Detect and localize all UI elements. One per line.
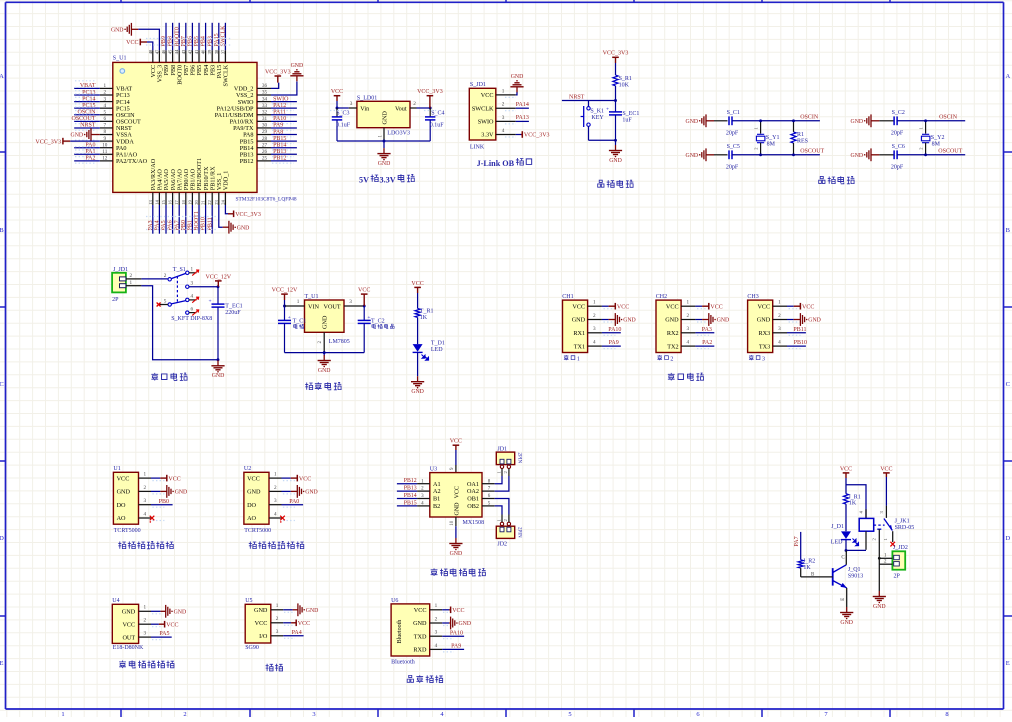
wire VCC to Vin xyxy=(336,101,338,108)
wire VSS_1 to GND xyxy=(219,205,223,227)
svg-text:VCC_12V: VCC_12V xyxy=(272,288,298,294)
connector J_JD1 2P xyxy=(112,267,128,303)
CH1 pin 2 GND xyxy=(572,313,616,324)
svg-text:2: 2 xyxy=(144,485,147,491)
CH3 pin 3 RX3 xyxy=(758,326,800,337)
power port VCC_3V3 (VDD_2) xyxy=(265,69,291,82)
svg-text:42: 42 xyxy=(187,49,192,54)
ground GND (U6) xyxy=(449,617,471,630)
sub label serial 1 xyxy=(564,355,580,362)
wire OSCOUT (left xtal) xyxy=(732,154,820,156)
MCU top pin 47 VSS_3 xyxy=(154,49,163,82)
svg-text:1: 1 xyxy=(191,267,194,273)
svg-text:J_D1: J_D1 xyxy=(831,524,844,530)
svg-text:VCC: VCC xyxy=(454,486,460,498)
svg-text:S_JD1: S_JD1 xyxy=(470,82,486,88)
U1 wire VCC xyxy=(151,477,160,479)
MCU right pin 34 SWIO xyxy=(238,96,297,106)
U6 pin 2 GND xyxy=(413,616,454,627)
U4 pin 1 GND xyxy=(122,605,163,616)
svg-text:2: 2 xyxy=(276,616,279,622)
MCU right pin 30 PA9/TX xyxy=(233,123,297,133)
U3 pin 7 OA2 xyxy=(467,487,495,496)
svg-text:PA0: PA0 xyxy=(85,143,95,149)
svg-text:GND: GND xyxy=(572,317,586,324)
MCU right pin 36 VDD_2 xyxy=(234,83,271,93)
JD1 pin 3 SWIO xyxy=(478,115,516,126)
wire VCC top xyxy=(147,42,153,50)
MCU top pin 39 PB3 xyxy=(207,23,216,76)
svg-text:20: 20 xyxy=(194,200,199,205)
wire OSCIN (left xtal) xyxy=(732,120,820,122)
resistor J_R2 1K xyxy=(798,559,815,577)
svg-text:B1: B1 xyxy=(433,496,440,503)
svg-text:1: 1 xyxy=(435,603,438,609)
svg-text:GND: GND xyxy=(212,373,225,379)
svg-text:SWIO: SWIO xyxy=(273,96,289,102)
ground GND (JD1) xyxy=(510,74,523,92)
svg-text:PB15: PB15 xyxy=(404,500,417,506)
svg-text:21: 21 xyxy=(201,200,206,205)
svg-text:Bluetooth: Bluetooth xyxy=(397,620,403,644)
title label: IR tracking module 2 xyxy=(249,541,304,548)
power port VCC_12V (buck in) xyxy=(272,288,298,301)
svg-text:PB0: PB0 xyxy=(159,499,169,505)
wire OA1 to JD1.1 xyxy=(495,476,502,484)
svg-text:VCC: VCC xyxy=(247,475,260,482)
svg-text:PB10: PB10 xyxy=(794,340,807,346)
U2 wire GND xyxy=(282,490,291,492)
wire VDD_1 to VCC_3V3 xyxy=(225,205,228,214)
MCU top pin 43 PB7 xyxy=(181,23,190,76)
LD01 pin 3 xyxy=(349,107,357,109)
svg-text:BOOT0: BOOT0 xyxy=(174,27,180,46)
CH3 wire PB10 xyxy=(787,345,806,347)
svg-text:GND: GND xyxy=(459,621,472,627)
title label: reset circuit xyxy=(598,180,634,187)
svg-text:TCRT5000: TCRT5000 xyxy=(244,528,271,534)
svg-text:BOOT1: BOOT1 xyxy=(194,211,200,230)
selection dot rows bottom xyxy=(146,216,217,218)
svg-text:GND: GND xyxy=(175,490,188,496)
svg-text:Vin: Vin xyxy=(360,106,369,113)
IC U2 TCRT5000 body xyxy=(244,466,271,534)
svg-text:20pF: 20pF xyxy=(726,131,739,137)
svg-text:3: 3 xyxy=(191,281,194,287)
svg-text:GND: GND xyxy=(623,318,636,324)
svg-text:2PIN: 2PIN xyxy=(517,453,522,464)
svg-text:VOUT: VOUT xyxy=(324,304,341,311)
ground GND (relay) xyxy=(873,591,886,610)
svg-text:J-Link OB: J-Link OB xyxy=(477,159,515,168)
svg-text:PA2: PA2 xyxy=(85,156,95,162)
svg-text:S_K1: S_K1 xyxy=(590,108,604,114)
svg-text:S_KFT DIP-8X8: S_KFT DIP-8X8 xyxy=(171,316,212,322)
ground GND (5V reg) xyxy=(377,148,390,167)
svg-text:S_C1: S_C1 xyxy=(727,110,740,116)
svg-text:DO: DO xyxy=(247,502,256,509)
CH2 wire PA3 xyxy=(695,332,714,334)
MCU left pin 8 VSSA xyxy=(100,129,133,139)
svg-text:VCC: VCC xyxy=(411,281,423,287)
svg-text:LED: LED xyxy=(431,347,443,353)
svg-text:LDO3V3: LDO3V3 xyxy=(387,130,410,136)
svg-text:47: 47 xyxy=(154,49,159,54)
svg-text:VCC: VCC xyxy=(880,466,892,472)
MCU right pin 35 VSS_2 xyxy=(236,90,271,100)
CH3 wire VCC xyxy=(787,305,794,307)
IC U4 E18-D80NK body xyxy=(112,598,144,651)
svg-text:GND: GND xyxy=(381,111,388,125)
ground GND (U2) xyxy=(291,485,318,498)
MCU left pin 2 PC13 xyxy=(74,87,130,99)
svg-text:U2: U2 xyxy=(244,466,251,472)
svg-text:VCC: VCC xyxy=(122,621,135,628)
svg-text:GND: GND xyxy=(71,133,84,139)
svg-text:Bluetooth: Bluetooth xyxy=(391,660,415,666)
svg-text:GND: GND xyxy=(111,27,124,33)
svg-text:VCC: VCC xyxy=(802,304,814,310)
MCU right pin 27 PB14 xyxy=(240,142,297,152)
svg-text:VCC: VCC xyxy=(126,40,138,46)
svg-text:T_EC1: T_EC1 xyxy=(225,303,242,309)
JD2 pin1 wire xyxy=(879,557,892,559)
svg-text:1: 1 xyxy=(274,472,277,478)
svg-text:Vout: Vout xyxy=(395,106,407,113)
title label: serial port circuit xyxy=(668,373,704,381)
U3 pin 3 B1 xyxy=(397,493,440,503)
relay switch contact xyxy=(874,506,893,559)
U3 pin 9 xyxy=(455,465,457,473)
ground GND (VSSA) xyxy=(71,128,100,141)
svg-text:PB13: PB13 xyxy=(273,149,286,155)
power port VCC (U1) xyxy=(160,475,180,483)
U2 pin 1 VCC xyxy=(247,472,295,483)
svg-text:10: 10 xyxy=(102,142,108,148)
svg-text:VCC: VCC xyxy=(168,476,180,482)
U3 pin 4 B2 xyxy=(397,500,440,510)
svg-text:CH2: CH2 xyxy=(656,294,667,300)
svg-text:44: 44 xyxy=(174,49,179,54)
svg-text:14: 14 xyxy=(154,200,159,205)
capacitor T_C1 (electrolytic) xyxy=(278,306,306,353)
svg-text:1: 1 xyxy=(144,472,147,478)
regulator U LD01 body LD03V3 xyxy=(357,96,410,137)
svg-text:37: 37 xyxy=(220,49,225,54)
MCU top pin 38 PA15 xyxy=(214,23,223,79)
svg-text:S9013: S9013 xyxy=(848,573,863,579)
ground GND (CH2) xyxy=(702,313,729,326)
ground GND (VSS_2) xyxy=(290,63,303,81)
svg-text:PA5: PA5 xyxy=(159,631,169,637)
ground GND (LED) xyxy=(411,376,424,395)
svg-text:2: 2 xyxy=(183,711,186,717)
svg-text:PA11: PA11 xyxy=(273,110,286,116)
capacitor S_C1 20pF xyxy=(714,110,740,136)
U2 pin 3 DO xyxy=(247,498,295,509)
svg-text:NRST: NRST xyxy=(80,123,96,129)
svg-text:VCC: VCC xyxy=(450,439,462,445)
svg-text:2: 2 xyxy=(593,313,596,319)
svg-text:1: 1 xyxy=(593,300,596,306)
resistor T_R1 1K xyxy=(415,309,433,322)
IC U3 MX1508 body xyxy=(430,467,484,526)
power port VCC (U5) xyxy=(291,620,310,628)
svg-text:OUT: OUT xyxy=(122,634,135,641)
MCU left pin 9 VDDA xyxy=(100,136,135,146)
svg-text:33: 33 xyxy=(262,103,268,109)
svg-text:B2: B2 xyxy=(433,503,440,510)
U2 pin 4 AO xyxy=(247,511,295,522)
svg-text:U4: U4 xyxy=(112,598,119,604)
MCU bottom pin 22 PB11/RX xyxy=(207,166,216,234)
transistor J_Q1 S9013 xyxy=(811,556,863,601)
svg-text:VCC: VCC xyxy=(331,89,343,95)
svg-text:PA9: PA9 xyxy=(273,123,283,129)
power port VCC_3V3 (JD1) xyxy=(521,131,550,139)
wire R1 to LED xyxy=(845,504,847,531)
CH1 wire PA9 xyxy=(602,345,621,347)
svg-text:S_C2: S_C2 xyxy=(892,110,905,116)
svg-text:4: 4 xyxy=(191,294,194,300)
power port VCC (LED) xyxy=(411,281,423,293)
wire 3.3V pin xyxy=(516,134,521,136)
MCU bottom pin 13 PA3/RX/AO xyxy=(148,158,157,233)
ground GND (U4) xyxy=(160,605,186,618)
svg-text:VCC: VCC xyxy=(299,476,311,482)
U3 pin 1 A1 xyxy=(397,478,441,488)
title label: bluetooth module xyxy=(407,675,442,683)
CH1 wire GND xyxy=(602,319,609,321)
svg-text:VCC: VCC xyxy=(757,303,770,310)
svg-text:VCC: VCC xyxy=(572,303,585,310)
U2 pin 2 GND xyxy=(247,485,295,496)
svg-text:29: 29 xyxy=(262,129,268,135)
resistor J_R1 1K xyxy=(843,494,860,507)
svg-text:VCC_3V3: VCC_3V3 xyxy=(417,89,443,95)
svg-text:32: 32 xyxy=(262,109,268,115)
svg-text:JD2: JD2 xyxy=(497,541,507,547)
resistor S_R1 10K xyxy=(613,75,632,88)
svg-text:+: + xyxy=(606,106,609,112)
svg-text:PB12: PB12 xyxy=(273,156,286,162)
svg-text:VCC_12V: VCC_12V xyxy=(205,274,231,280)
U1 pin 1 VCC xyxy=(117,472,165,483)
svg-text:1: 1 xyxy=(502,88,505,94)
svg-text:4: 4 xyxy=(778,340,781,346)
svg-text:1: 1 xyxy=(276,603,279,609)
svg-text:VBAT: VBAT xyxy=(80,83,96,89)
capacitor S_C6 20pF xyxy=(879,144,905,170)
power port VCC (relay R) xyxy=(880,466,892,477)
svg-text:PB13: PB13 xyxy=(404,486,417,492)
CH2 wire PA2 xyxy=(695,345,714,347)
CH1 pin 3 RX1 xyxy=(573,326,615,337)
svg-text:1: 1 xyxy=(577,356,580,362)
svg-text:S_LD01: S_LD01 xyxy=(357,96,377,102)
svg-text:GND: GND xyxy=(686,119,699,125)
svg-text:GND: GND xyxy=(174,609,187,615)
title label: servo xyxy=(266,664,283,671)
connector CH1 body xyxy=(562,294,587,353)
svg-text:E: E xyxy=(841,598,846,601)
svg-text:VCC_3V3: VCC_3V3 xyxy=(603,51,629,57)
svg-text:A1: A1 xyxy=(433,481,441,488)
svg-text:5: 5 xyxy=(104,109,107,115)
svg-text:5: 5 xyxy=(568,711,571,717)
svg-text:T_R1: T_R1 xyxy=(420,309,434,315)
title label: 5V to 3.3V circuit xyxy=(359,174,415,184)
svg-text:3: 3 xyxy=(274,498,277,504)
svg-text:S_R1: S_R1 xyxy=(619,76,632,82)
svg-text:E18-D80NK: E18-D80NK xyxy=(113,645,144,651)
svg-text:GND: GND xyxy=(511,74,524,80)
svg-text:4: 4 xyxy=(593,340,596,346)
CH1 pin 1 VCC xyxy=(572,300,615,311)
svg-text:OA2: OA2 xyxy=(467,488,479,495)
svg-text:3: 3 xyxy=(593,326,596,332)
svg-text:TX3: TX3 xyxy=(759,343,770,350)
U4 wire VCC xyxy=(151,623,159,625)
svg-text:PB14: PB14 xyxy=(273,143,286,149)
svg-text:VCC: VCC xyxy=(666,303,679,310)
U3 pin 8 OA1 xyxy=(467,479,495,488)
svg-text:PA2/TX/AO: PA2/TX/AO xyxy=(116,158,148,165)
svg-text:9: 9 xyxy=(104,136,107,142)
svg-text:LED: LED xyxy=(831,540,843,546)
U1 GND pin 2 xyxy=(323,332,325,352)
svg-text:S_C4: S_C4 xyxy=(431,111,444,117)
capacitor S_EC1 1uF xyxy=(606,101,639,141)
MCU left pin 3 PC14 xyxy=(74,94,130,106)
U1 wire GND xyxy=(151,490,160,492)
wire VDD_2 to VCC_3V3 xyxy=(271,83,279,89)
ground GND (VSS_3) xyxy=(111,23,138,36)
MCU top pin 37 SWCLK xyxy=(220,23,229,87)
MCU bottom pin 17 PA7/AO xyxy=(174,169,183,234)
svg-text:RX1: RX1 xyxy=(573,330,585,337)
svg-text:VCC: VCC xyxy=(452,608,464,614)
CH2 wire GND xyxy=(695,319,702,321)
switch pin 1 stub + no-ERC arrow xyxy=(189,272,197,274)
svg-text:13: 13 xyxy=(148,200,153,205)
power port VCC_12V (power in) xyxy=(205,274,231,286)
JD2 pin2 wire xyxy=(879,563,892,565)
svg-text:18: 18 xyxy=(181,200,186,205)
U5 pin 3 I/O xyxy=(259,629,295,640)
regulator T_U1 LM7805 body xyxy=(305,294,350,345)
capacitor T_EC1 220uF xyxy=(209,287,243,360)
U5 wire GND xyxy=(283,609,292,611)
U4 pin 2 VCC xyxy=(122,618,163,629)
svg-text:OB1: OB1 xyxy=(467,496,479,503)
svg-text:AO: AO xyxy=(117,515,126,522)
svg-text:A2: A2 xyxy=(433,488,441,495)
svg-text:MX1508: MX1508 xyxy=(463,520,485,526)
svg-text:PA2: PA2 xyxy=(702,340,712,346)
svg-text:U3: U3 xyxy=(430,467,437,473)
svg-text:D: D xyxy=(1005,535,1010,542)
svg-text:GND: GND xyxy=(609,158,622,164)
svg-text:KEY: KEY xyxy=(591,115,604,121)
U3 pin 2 A2 xyxy=(397,486,441,496)
svg-text:1K: 1K xyxy=(420,315,428,321)
wire OSCOUT (right xtal) xyxy=(897,154,965,156)
svg-text:PA9: PA9 xyxy=(609,340,619,346)
MCU top pin 46 PB9 xyxy=(161,23,170,76)
ground GND (reset) xyxy=(609,145,622,164)
power port VCC_3V3 (reset) xyxy=(603,51,629,63)
svg-text:1: 1 xyxy=(61,711,64,717)
svg-text:U6: U6 xyxy=(391,598,398,604)
power port VCC (top) xyxy=(126,39,147,47)
power port VCC (CH1) xyxy=(609,303,630,311)
U6 pin 4 RXD xyxy=(413,643,454,654)
power port VCC (U6) xyxy=(449,607,464,615)
MCU bottom pin 21 PB10/TX xyxy=(201,166,210,234)
LD01 GND pin 1 xyxy=(383,128,385,141)
svg-text:TCRT5000: TCRT5000 xyxy=(114,528,141,534)
U5 wire VCC xyxy=(283,622,291,624)
svg-text:GND: GND xyxy=(851,119,864,125)
svg-text:2: 2 xyxy=(502,102,505,108)
svg-text:PB15: PB15 xyxy=(273,136,286,142)
wire PA13 xyxy=(516,120,529,122)
title label: IR tracking module 1 xyxy=(118,541,173,548)
power port VCC_3V3 (VDD_1) xyxy=(228,211,261,219)
U6 wire PA10 xyxy=(442,635,464,637)
MCU left pin 1 VBAT xyxy=(74,81,132,93)
svg-text:PA13: PA13 xyxy=(516,115,529,121)
wire VSS_3 to GND xyxy=(138,29,159,50)
connector JD2 2PIN (motor B) xyxy=(496,515,521,548)
power port VCC_3V3 (VDDA) xyxy=(35,138,70,146)
svg-text:I/O: I/O xyxy=(259,633,268,640)
wire R1 to node xyxy=(615,86,617,101)
svg-text:VIN: VIN xyxy=(308,304,320,311)
svg-text:S_C5: S_C5 xyxy=(727,144,740,150)
power port VCC (U2) xyxy=(291,475,311,483)
bottom rail wire xyxy=(337,140,430,142)
svg-text:5: 5 xyxy=(164,298,167,304)
svg-text:T_S1: T_S1 xyxy=(173,267,186,273)
svg-text:1K: 1K xyxy=(849,501,857,507)
svg-text:2: 2 xyxy=(435,616,438,622)
svg-text:GND: GND xyxy=(117,489,131,496)
switch pin 5 wire + no-ERC cross xyxy=(159,304,168,306)
bottom wire xyxy=(589,139,616,141)
svg-text:20pF: 20pF xyxy=(891,165,904,171)
MCU top pin 44 BOOT0 xyxy=(174,23,183,85)
svg-text:GND: GND xyxy=(378,161,391,167)
svg-text:PB11: PB11 xyxy=(793,327,806,333)
svg-text:PB11: PB11 xyxy=(207,217,213,230)
svg-text:OSCOUT: OSCOUT xyxy=(71,116,95,122)
power port VCC (relay L) xyxy=(840,466,852,478)
MCU bottom pin 24 VDD_1 xyxy=(220,171,229,205)
svg-text:1: 1 xyxy=(297,299,300,305)
ground GND (C2) xyxy=(851,114,880,127)
MCU top pin 40 PB4 xyxy=(201,23,210,76)
ground GND (C1) xyxy=(686,114,714,127)
U1 pin 2 GND xyxy=(117,485,165,496)
svg-text:45: 45 xyxy=(168,49,173,54)
wire to R1 xyxy=(615,63,617,75)
collector wire xyxy=(845,550,847,564)
U1 pin 3 xyxy=(344,305,364,307)
svg-text:B: B xyxy=(1006,227,1011,234)
CH3 pin 2 GND xyxy=(757,313,801,324)
